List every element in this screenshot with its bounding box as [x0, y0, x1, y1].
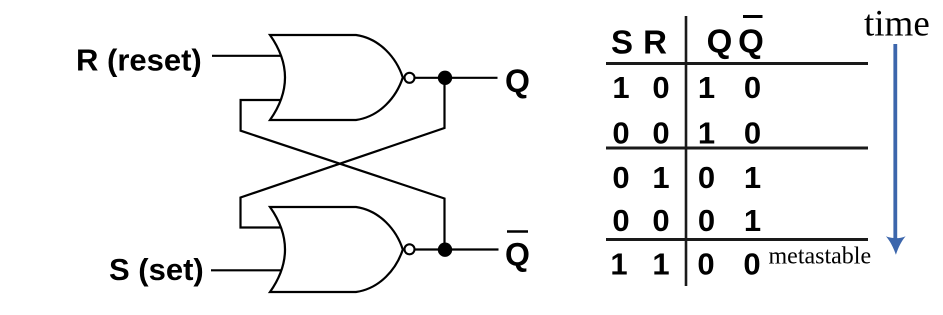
- table rule under header: [606, 62, 868, 65]
- NOR gate U1 (top) body: [270, 35, 403, 120]
- svg-text:Q: Q: [505, 237, 530, 273]
- junction node Q: [438, 71, 452, 85]
- svg-text:0: 0: [652, 203, 669, 238]
- svg-text:1: 1: [698, 70, 715, 105]
- svg-text:0: 0: [612, 203, 629, 238]
- NOR gate U1 output bubble: [405, 73, 415, 83]
- svg-text:1: 1: [652, 160, 669, 195]
- time arrow head: [886, 236, 906, 255]
- table rule above last row: [606, 238, 868, 241]
- svg-text:0: 0: [697, 247, 714, 282]
- table rule middle: [606, 147, 868, 150]
- svg-text:0: 0: [698, 160, 715, 195]
- svg-text:time: time: [864, 4, 930, 45]
- wire S input: [211, 269, 284, 271]
- wire feedback from Qbar node to top gate input (vertical, diagonal, corner): [241, 100, 445, 248]
- svg-text:S (set): S (set): [109, 252, 204, 287]
- svg-text:Q: Q: [738, 23, 764, 60]
- NOR gate U2 output bubble: [405, 244, 415, 254]
- svg-text:1: 1: [744, 160, 761, 195]
- svg-text:0: 0: [744, 70, 761, 105]
- wire feedback from Q node to bottom gate input (vertical, diagonal, corner): [241, 79, 445, 228]
- junction node Qbar: [438, 243, 452, 257]
- svg-text:0: 0: [612, 160, 629, 195]
- label Qbar overbar: [507, 230, 528, 233]
- svg-text:0: 0: [612, 115, 629, 150]
- svg-text:R (reset): R (reset): [76, 43, 202, 78]
- svg-text:1: 1: [612, 70, 629, 105]
- wire R input: [212, 55, 283, 57]
- svg-text:Q: Q: [707, 23, 733, 60]
- svg-text:0: 0: [652, 70, 669, 105]
- svg-text:1: 1: [744, 203, 761, 238]
- svg-text:1: 1: [652, 247, 669, 282]
- svg-text:R: R: [643, 24, 667, 61]
- table header Qbar overbar: [743, 15, 763, 18]
- svg-text:Q: Q: [505, 63, 530, 99]
- svg-text:0: 0: [698, 203, 715, 238]
- svg-text:1: 1: [698, 115, 715, 150]
- NOR gate U2 (bottom) body: [270, 207, 403, 292]
- time arrow shaft: [893, 44, 897, 243]
- svg-text:S: S: [611, 24, 633, 61]
- table vertical divider: [685, 16, 688, 286]
- svg-text:0: 0: [652, 115, 669, 150]
- wire Q output: [414, 77, 497, 79]
- svg-text:1: 1: [610, 247, 627, 282]
- svg-text:metastable: metastable: [769, 243, 872, 269]
- svg-text:0: 0: [744, 115, 761, 150]
- svg-text:0: 0: [743, 247, 760, 282]
- wire Qbar output: [414, 248, 498, 250]
